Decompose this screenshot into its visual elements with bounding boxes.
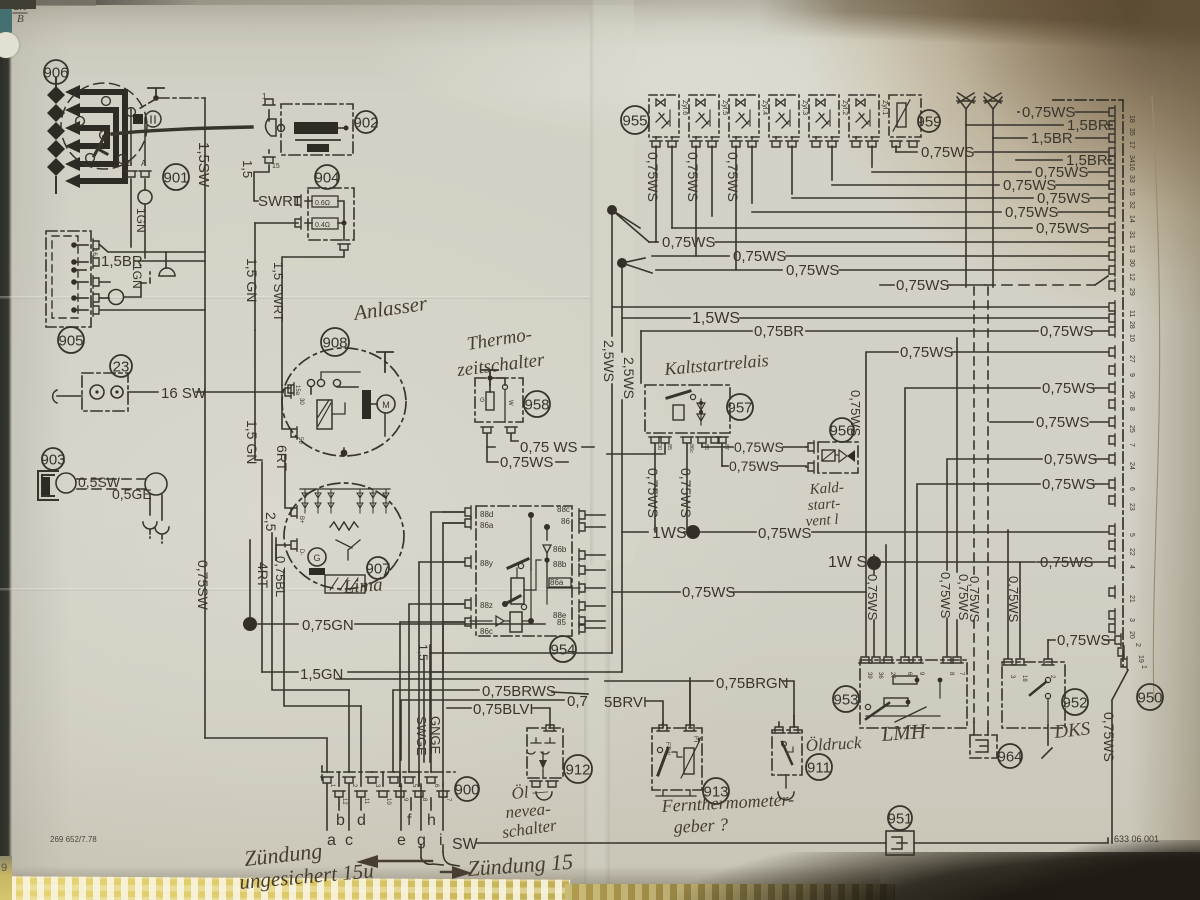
svg-text:0,75WS: 0,75WS	[1040, 323, 1093, 340]
svg-text:911: 911	[807, 759, 831, 776]
svg-text:954: 954	[550, 641, 575, 658]
svg-text:Zyl.4: Zyl.4	[761, 100, 768, 115]
svg-text:901: 901	[163, 169, 188, 186]
svg-text:h: h	[427, 812, 436, 829]
svg-text:b: b	[336, 812, 345, 829]
svg-text:DKS: DKS	[1052, 718, 1091, 743]
svg-text:1W S: 1W S	[828, 554, 867, 571]
svg-text:Kaltstartrelais: Kaltstartrelais	[663, 350, 770, 379]
svg-text:0,75WS: 0,75WS	[1036, 220, 1089, 237]
svg-text:0,75WS: 0,75WS	[967, 576, 982, 623]
svg-text:0,75WS: 0,75WS	[645, 468, 661, 518]
svg-text:6: 6	[433, 784, 439, 788]
svg-text:Anlasser: Anlasser	[350, 291, 429, 325]
svg-text:0,75WS: 0,75WS	[900, 344, 953, 361]
svg-text:d: d	[357, 812, 366, 829]
svg-text:M: M	[382, 400, 390, 410]
svg-text:16: 16	[91, 249, 97, 256]
svg-text:LMH: LMH	[880, 719, 929, 746]
svg-text:FT: FT	[692, 736, 698, 744]
svg-text:33: 33	[1128, 175, 1135, 183]
svg-text:3: 3	[374, 784, 380, 788]
svg-text:269 652/7.78: 269 652/7.78	[50, 835, 97, 844]
svg-text:8: 8	[421, 798, 427, 802]
svg-text:G: G	[480, 398, 485, 404]
svg-text:26: 26	[1128, 391, 1135, 399]
svg-text:86c: 86c	[688, 444, 694, 453]
svg-text:1,5 SWRT: 1,5 SWRT	[271, 262, 286, 322]
svg-text:19: 19	[1137, 655, 1144, 663]
svg-text:Zyl.3: Zyl.3	[801, 100, 808, 115]
svg-text:0,75WS: 0,75WS	[725, 152, 741, 202]
svg-text:908: 908	[322, 334, 347, 351]
svg-text:88y: 88y	[480, 559, 493, 568]
svg-text:15a: 15a	[294, 385, 300, 396]
svg-text:36: 36	[877, 672, 883, 679]
svg-text:3: 3	[1128, 618, 1135, 622]
svg-text:9: 9	[402, 798, 408, 802]
svg-text:953: 953	[833, 691, 858, 708]
svg-text:1,5 GN: 1,5 GN	[244, 258, 260, 302]
svg-text:15: 15	[272, 163, 280, 170]
svg-text:952: 952	[1062, 694, 1087, 711]
svg-text:0,75WS: 0,75WS	[758, 525, 811, 542]
svg-text:Zyl.5: Zyl.5	[721, 100, 728, 115]
svg-text:1,5 GN: 1,5 GN	[244, 420, 260, 464]
svg-text:1,5BR: 1,5BR	[1031, 130, 1073, 147]
svg-text:16 SW: 16 SW	[161, 385, 207, 402]
svg-text:1,5SW: 1,5SW	[195, 142, 212, 188]
svg-text:G: G	[313, 553, 320, 563]
svg-text:1,5BR: 1,5BR	[1067, 117, 1109, 134]
svg-text:1,5WS: 1,5WS	[692, 310, 740, 327]
svg-text:9: 9	[1, 862, 7, 874]
svg-text:1GN: 1GN	[134, 208, 148, 233]
svg-text:B+: B+	[298, 516, 304, 524]
svg-text:0,75WS: 0,75WS	[733, 248, 786, 265]
svg-text:SW: SW	[452, 836, 479, 853]
svg-text:32: 32	[1128, 201, 1135, 209]
svg-text:5: 5	[411, 784, 417, 788]
svg-text:i: i	[439, 832, 443, 849]
svg-text:geber ?: geber ?	[673, 814, 728, 837]
svg-text:88b: 88b	[553, 560, 567, 569]
svg-text:Zündung 15: Zündung 15	[467, 849, 574, 881]
svg-text:633 06 001: 633 06 001	[1114, 834, 1159, 844]
svg-text:23: 23	[1128, 503, 1135, 511]
svg-text:0,75WS: 0,75WS	[500, 454, 553, 471]
svg-text:30: 30	[1128, 259, 1135, 267]
svg-text:0,75WS: 0,75WS	[1044, 451, 1097, 468]
svg-text:Zyl.1: Zyl.1	[881, 100, 888, 115]
svg-text:958: 958	[524, 396, 549, 413]
svg-text:50: 50	[297, 437, 303, 444]
svg-text:13: 13	[1128, 245, 1135, 253]
svg-text:950: 950	[1137, 689, 1162, 706]
svg-text:0,75WS: 0,75WS	[685, 152, 701, 202]
svg-text:10: 10	[385, 798, 391, 805]
svg-text:1,5: 1,5	[416, 644, 430, 661]
svg-text:86a: 86a	[550, 578, 564, 587]
svg-text:12: 12	[1128, 273, 1135, 281]
svg-text:7: 7	[1128, 443, 1135, 447]
svg-text:0.4Ω: 0.4Ω	[315, 222, 330, 229]
svg-text:0,75WS: 0,75WS	[729, 458, 779, 474]
svg-text:900: 900	[454, 781, 479, 798]
svg-text:f: f	[407, 812, 412, 829]
svg-text:39: 39	[866, 672, 872, 679]
svg-text:W: W	[507, 400, 513, 406]
svg-text:B: B	[17, 13, 24, 25]
svg-text:10: 10	[1128, 334, 1135, 342]
svg-text:e: e	[397, 832, 406, 849]
svg-text:14: 14	[1128, 215, 1135, 223]
svg-text:0,75WS: 0,75WS	[734, 439, 784, 455]
svg-text:30: 30	[298, 398, 304, 405]
svg-text:27: 27	[1128, 355, 1135, 363]
svg-text:88c: 88c	[557, 505, 570, 514]
svg-text:a: a	[327, 832, 336, 849]
svg-text:22: 22	[1128, 548, 1135, 556]
svg-text:11: 11	[1128, 310, 1135, 317]
svg-text:951: 951	[887, 810, 912, 827]
svg-text:5BRVI: 5BRVI	[604, 694, 647, 711]
svg-text:4RT: 4RT	[255, 562, 271, 589]
svg-text:959: 959	[916, 113, 941, 130]
svg-text:0,75WS: 0,75WS	[1057, 632, 1110, 649]
svg-text:86: 86	[561, 517, 570, 526]
svg-text:0,75BLVI: 0,75BLVI	[473, 701, 534, 718]
svg-text:0,75WS: 0,75WS	[1101, 712, 1117, 762]
svg-text:1: 1	[1140, 665, 1147, 669]
svg-text:1,5GN: 1,5GN	[300, 666, 343, 683]
svg-text:0,75WS: 0,75WS	[848, 390, 863, 437]
svg-text:15: 15	[1128, 188, 1135, 196]
svg-text:12: 12	[341, 798, 347, 805]
svg-text:Öldruck: Öldruck	[805, 733, 862, 755]
svg-text:86c: 86c	[480, 627, 493, 636]
svg-text:28: 28	[1128, 321, 1135, 329]
svg-text:0,75WS: 0,75WS	[896, 277, 949, 294]
svg-text:1WS: 1WS	[652, 525, 687, 542]
svg-text:902: 902	[353, 114, 378, 131]
svg-text:21: 21	[1128, 595, 1135, 603]
svg-text:4: 4	[1128, 565, 1135, 569]
svg-text:7: 7	[958, 672, 964, 676]
svg-text:0,75WS: 0,75WS	[1036, 414, 1089, 431]
svg-text:35: 35	[1128, 128, 1135, 136]
svg-text:31: 31	[1128, 231, 1135, 239]
svg-text:904: 904	[314, 169, 339, 186]
svg-text:c: c	[345, 832, 353, 849]
svg-text:30: 30	[656, 444, 662, 450]
svg-text:0,75WS: 0,75WS	[645, 152, 661, 202]
svg-text:0,75WS: 0,75WS	[662, 234, 715, 251]
svg-text:D-: D-	[298, 549, 304, 555]
svg-text:1: 1	[262, 92, 267, 101]
svg-text:0,75GN: 0,75GN	[302, 617, 354, 634]
svg-text:0,75BL: 0,75BL	[273, 556, 288, 597]
svg-text:2,5: 2,5	[263, 512, 279, 532]
svg-text:0,75BRWS: 0,75BRWS	[482, 683, 556, 700]
svg-text:0,75WS: 0,75WS	[678, 468, 694, 518]
svg-text:0,75WS: 0,75WS	[682, 584, 735, 601]
svg-text:2.1: 2.1	[14, 1, 28, 13]
svg-text:0.6Ω: 0.6Ω	[315, 200, 330, 207]
svg-text:24: 24	[1128, 462, 1135, 470]
svg-text:955: 955	[622, 112, 647, 129]
svg-text:25: 25	[1128, 425, 1135, 433]
svg-text:6: 6	[1128, 487, 1135, 491]
svg-text:Thermo-: Thermo-	[465, 324, 533, 355]
svg-text:0,7: 0,7	[567, 693, 588, 710]
svg-text:9: 9	[1128, 373, 1135, 377]
svg-text:6RT: 6RT	[274, 445, 290, 472]
svg-text:A: A	[141, 159, 147, 168]
svg-text:SWGE: SWGE	[414, 716, 429, 756]
svg-text:912: 912	[565, 761, 590, 778]
svg-text:2: 2	[351, 784, 357, 788]
svg-text:Fernthermometer-: Fernthermometer-	[660, 789, 794, 816]
svg-text:0,75SW: 0,75SW	[195, 560, 211, 611]
svg-text:2,5WS: 2,5WS	[601, 340, 617, 382]
svg-text:Zyl.2: Zyl.2	[841, 100, 848, 115]
svg-text:Zyl.6: Zyl.6	[681, 100, 688, 115]
svg-text:8: 8	[1128, 407, 1135, 411]
svg-text:1: 1	[329, 784, 335, 788]
svg-text:2: 2	[1134, 643, 1141, 647]
svg-text:85: 85	[557, 618, 566, 627]
svg-text:86b: 86b	[553, 545, 567, 554]
svg-text:0,75WS: 0,75WS	[938, 572, 953, 619]
svg-text:11: 11	[363, 798, 369, 805]
svg-text:0,75BRGN: 0,75BRGN	[716, 675, 789, 692]
svg-text:18: 18	[1021, 675, 1027, 682]
svg-text:85: 85	[666, 444, 672, 450]
svg-text:964: 964	[997, 748, 1022, 765]
svg-text:86a: 86a	[480, 521, 494, 530]
svg-text:5: 5	[1128, 533, 1135, 537]
svg-text:88z: 88z	[480, 601, 493, 610]
svg-text:0,75WS: 0,75WS	[1040, 554, 1093, 571]
svg-text:9: 9	[918, 672, 924, 676]
svg-text:1,5: 1,5	[240, 160, 255, 178]
svg-text:17: 17	[1128, 141, 1135, 149]
svg-text:0,75WS: 0,75WS	[1042, 380, 1095, 397]
svg-text:903: 903	[40, 451, 65, 468]
svg-text:vent l: vent l	[805, 512, 839, 530]
svg-text:905: 905	[58, 332, 83, 349]
svg-text:8: 8	[948, 672, 954, 676]
svg-text:2,5WS: 2,5WS	[621, 357, 637, 399]
svg-text:0,75BR: 0,75BR	[754, 323, 804, 340]
svg-text:3: 3	[1009, 675, 1015, 679]
svg-text:88d: 88d	[480, 510, 493, 519]
svg-text:0,75WS: 0,75WS	[865, 574, 880, 621]
svg-text:20: 20	[1128, 631, 1135, 639]
svg-text:29: 29	[1128, 288, 1135, 296]
svg-text:16: 16	[1128, 163, 1135, 171]
svg-text:957: 957	[727, 399, 752, 416]
svg-text:0,75WS: 0,75WS	[1005, 204, 1058, 221]
svg-text:7: 7	[445, 798, 451, 802]
svg-text:0,75WS: 0,75WS	[1042, 476, 1095, 493]
svg-text:0,75WS: 0,75WS	[786, 262, 839, 279]
svg-text:18: 18	[1128, 115, 1135, 123]
svg-text:34: 34	[1128, 155, 1135, 163]
